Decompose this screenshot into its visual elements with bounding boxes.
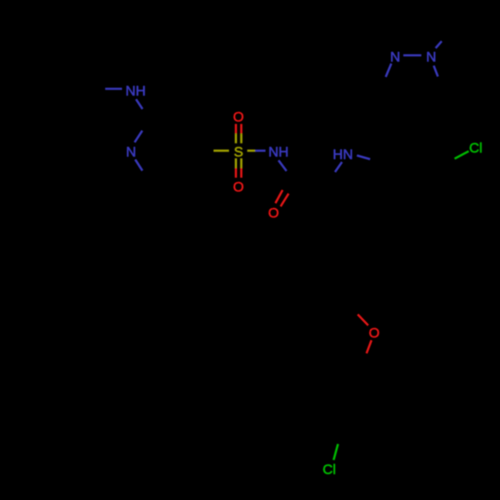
wire HN to aryl C right (blue half) <box>357 155 370 159</box>
wire N-N pyrazole bond (blue) <box>403 54 421 56</box>
wire S=O top double bond red halves <box>235 124 237 134</box>
wire S to CH2 (yellow half) <box>214 150 230 152</box>
svg-text:N: N <box>390 49 400 65</box>
wire ring N up-right (blue half) <box>135 131 143 143</box>
svg-text:S: S <box>234 143 243 159</box>
wire S=O top double bond yellow halves <box>235 134 237 144</box>
svg-text:NH: NH <box>126 83 146 99</box>
wire Cl to aryl C (green half) <box>334 444 338 460</box>
svg-text:O: O <box>233 109 244 125</box>
wire N-methyl (blue half) <box>436 41 442 48</box>
svg-text:HN: HN <box>333 146 353 162</box>
wire S=O bottom double bond yellow halves <box>235 158 237 168</box>
wire left N down-left (blue half) <box>386 64 392 77</box>
wire O ether up-left (red half) <box>358 314 369 325</box>
wire S to N (blue half) <box>255 150 265 152</box>
svg-text:NH: NH <box>268 143 288 159</box>
svg-text:N: N <box>426 49 436 65</box>
wire NH to ring C2 (blue half) <box>136 99 143 109</box>
svg-text:O: O <box>268 205 279 221</box>
svg-text:Cl: Cl <box>469 139 482 155</box>
wire S to N (yellow half) <box>247 150 255 152</box>
wire O ether down-left (red half) <box>367 340 372 353</box>
wire Cl to aryl C (green half) <box>455 151 469 159</box>
svg-text:O: O <box>233 179 244 195</box>
wire HN to CH down-left (blue half) <box>335 162 342 172</box>
wire S=O bottom double bond red halves <box>235 168 237 178</box>
wire NH to carbonyl C (blue half) <box>279 160 287 171</box>
wire right N down-right (blue half) <box>434 66 438 77</box>
svg-text:Cl: Cl <box>323 461 336 477</box>
svg-text:N: N <box>126 143 136 159</box>
wire C=O amide double bond red halves <box>275 190 282 203</box>
wire N-H amine to cyclohexyl (blue half) <box>105 88 122 90</box>
svg-text:O: O <box>369 325 380 341</box>
wire ring N down-right (blue half) <box>135 160 142 171</box>
